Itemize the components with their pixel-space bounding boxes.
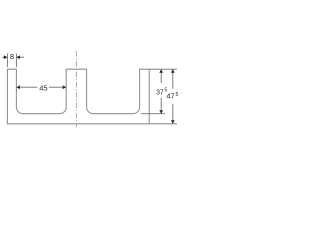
trough outline (7, 69, 149, 124)
dim 45: arrows (16, 85, 66, 89)
svg-text:37: 37 (156, 87, 164, 96)
dim 8: line tails (2, 56, 24, 58)
dim 47.5: line (172, 73, 174, 121)
dim 37.5: arrows (159, 69, 163, 114)
dim 45: line (20, 86, 63, 88)
svg-text:5: 5 (176, 92, 179, 98)
dim 8: arrows (4, 55, 20, 59)
dim 8: extension lines (7, 54, 16, 68)
right extension lines (141, 69, 177, 124)
centerline (75, 51, 77, 128)
dim 47.5: arrows (171, 69, 175, 124)
dim 37.5: line (160, 73, 162, 111)
svg-text:47: 47 (166, 92, 174, 101)
svg-text:8: 8 (10, 52, 14, 61)
svg-text:45: 45 (39, 84, 47, 93)
